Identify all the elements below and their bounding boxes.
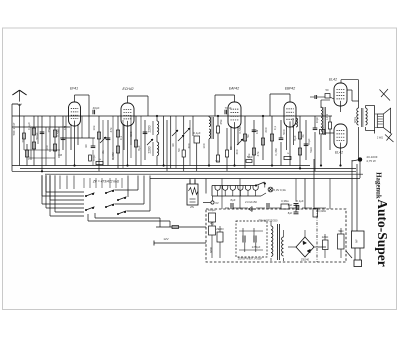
svg-text:EAF42: EAF42: [229, 87, 239, 91]
svg-text:50pF: 50pF: [247, 155, 253, 159]
svg-text:0,1µF: 0,1µF: [296, 199, 303, 203]
svg-text:10pF: 10pF: [315, 117, 319, 124]
svg-text:5k: 5k: [246, 134, 250, 138]
svg-text:6800: 6800: [209, 246, 213, 253]
svg-text:100µF: 100µF: [208, 208, 216, 212]
svg-text:Auto-Super: Auto-Super: [375, 199, 390, 267]
svg-text:12V: 12V: [163, 237, 168, 241]
svg-text:2×OA150: 2×OA150: [245, 200, 257, 204]
svg-text:0,3MΩ: 0,3MΩ: [318, 209, 326, 213]
svg-text:25k: 25k: [219, 119, 223, 124]
svg-text:0,1: 0,1: [119, 136, 123, 141]
svg-text:70pF: 70pF: [92, 154, 96, 161]
svg-text:50: 50: [177, 148, 181, 152]
svg-text:70pF: 70pF: [225, 106, 232, 110]
svg-text:1M: 1M: [58, 153, 63, 157]
svg-text:47k: 47k: [109, 127, 113, 132]
svg-text:6,3V 0,3A: 6,3V 0,3A: [274, 188, 286, 192]
svg-text:EL42: EL42: [329, 78, 337, 82]
svg-text:TRANSF25/350: TRANSF25/350: [259, 219, 278, 223]
svg-text:1M: 1M: [63, 125, 67, 130]
svg-text:10k: 10k: [92, 125, 96, 130]
svg-text:8µF: 8µF: [231, 198, 236, 202]
svg-text:300: 300: [235, 149, 239, 154]
svg-text:0,3Mo: 0,3Mo: [281, 199, 289, 203]
svg-text:8µF: 8µF: [293, 135, 297, 141]
svg-text:200: 200: [264, 127, 268, 132]
svg-text:2×47: 2×47: [12, 122, 16, 129]
svg-text:6V: 6V: [215, 201, 218, 205]
svg-text:200: 200: [21, 137, 25, 142]
svg-text:5kΩ: 5kΩ: [309, 147, 313, 153]
svg-text:0,5M: 0,5M: [56, 129, 60, 136]
svg-text:8µF: 8µF: [137, 145, 141, 151]
svg-text:1-2+2: 1-2+2: [326, 113, 329, 120]
svg-text:90: 90: [84, 144, 88, 148]
svg-text:0,3M: 0,3M: [274, 148, 278, 155]
svg-text:2k: 2k: [301, 134, 305, 138]
svg-text:1M: 1M: [255, 129, 259, 134]
svg-text:EBF42: EBF42: [285, 87, 295, 91]
svg-text:NF: NF: [355, 239, 359, 243]
svg-text:47k: 47k: [256, 151, 260, 156]
svg-text:8µF: 8µF: [288, 211, 293, 215]
svg-text:2×50µF: 2×50µF: [252, 246, 261, 249]
svg-text:0,5M: 0,5M: [238, 126, 242, 133]
svg-text:WDG: WDG: [354, 117, 357, 123]
svg-text:0,1: 0,1: [273, 126, 277, 131]
svg-text:ZB240: ZB240: [301, 258, 310, 262]
svg-text:50: 50: [229, 146, 233, 150]
svg-text:40pF: 40pF: [93, 106, 100, 110]
svg-text:2200: 2200: [148, 125, 152, 132]
svg-text:ZERSPANER 2×50µF: ZERSPANER 2×50µF: [238, 258, 263, 261]
svg-text:4,75 W: 4,75 W: [366, 159, 376, 163]
svg-text:50pF: 50pF: [35, 132, 39, 139]
svg-text:2200: 2200: [148, 146, 152, 153]
svg-text:ZS: ZS: [190, 205, 194, 209]
svg-text:90: 90: [171, 143, 175, 147]
svg-text:50: 50: [215, 159, 219, 163]
svg-text:50: 50: [326, 88, 329, 92]
svg-text:EF41: EF41: [70, 87, 78, 91]
svg-text:ECH42: ECH42: [123, 87, 134, 91]
svg-text:2 WΩ: 2 WΩ: [377, 137, 383, 140]
svg-text:8µF: 8µF: [288, 203, 293, 207]
svg-text:25k: 25k: [47, 127, 51, 132]
svg-text:0,1µF: 0,1µF: [193, 131, 200, 135]
svg-text:300: 300: [187, 143, 191, 148]
svg-text:TA: TA: [321, 126, 324, 129]
svg-text:0,1µF: 0,1µF: [27, 122, 31, 130]
svg-text:500: 500: [12, 130, 16, 135]
svg-text:EL42: EL42: [335, 151, 343, 155]
svg-text:Hagenuk: Hagenuk: [375, 172, 382, 199]
svg-text:500: 500: [282, 129, 286, 134]
svg-text:70pF: 70pF: [307, 138, 311, 145]
svg-text:100: 100: [202, 143, 206, 148]
